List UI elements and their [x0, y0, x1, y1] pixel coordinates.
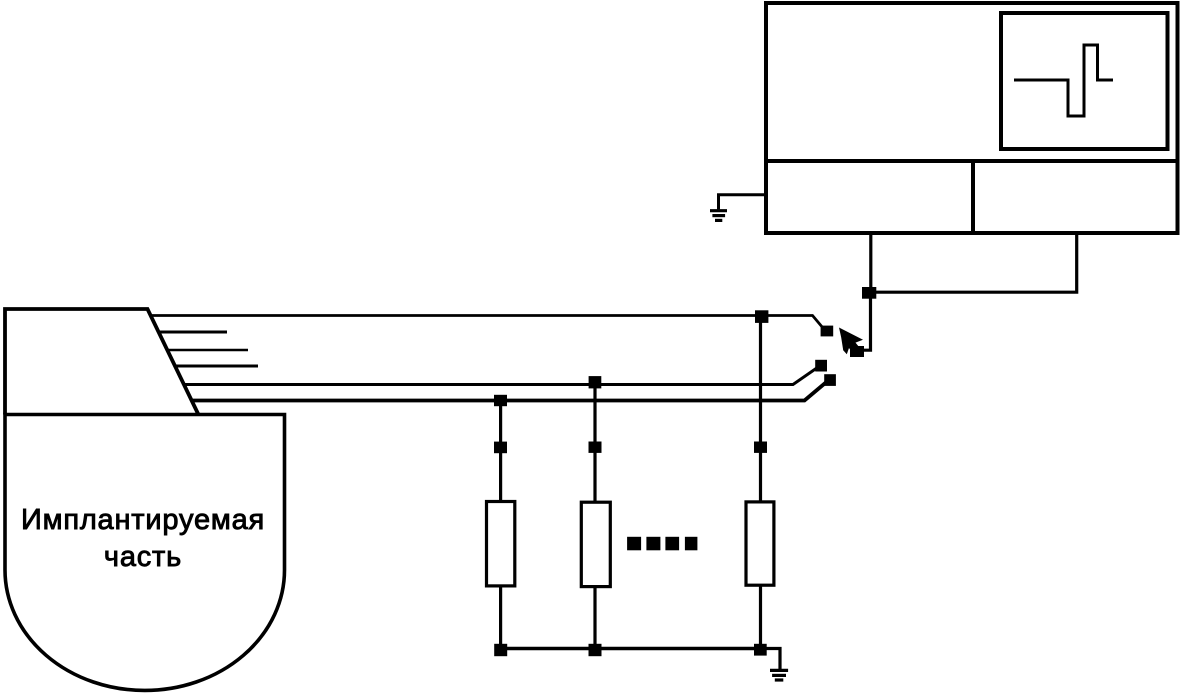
wire from box bottom left output	[869, 235, 872, 293]
wire from box bottom right output	[872, 235, 1077, 292]
cursor arrow (switch selector)	[839, 328, 863, 355]
branch 2 vertical wire	[593, 383, 596, 650]
resistor R3	[746, 502, 774, 585]
electrode stub wire 1	[159, 331, 227, 334]
electrode stub wire 3	[175, 365, 258, 368]
mid-branch contact square 3	[754, 442, 767, 453]
svg-text:Имплантируемая: Имплантируемая	[21, 504, 265, 536]
cable top conductor (to switch throw 1)	[151, 316, 823, 329]
branch 1 vertical wire	[499, 400, 502, 650]
ground symbol (upper left of box)	[710, 211, 727, 221]
ellipsis dots (more branches)	[627, 537, 697, 551]
node on bottom conductor	[494, 395, 507, 406]
mid-branch contact square 2	[589, 442, 602, 453]
bus node square 3	[754, 644, 767, 656]
wire from box to ground	[719, 195, 766, 210]
bus node square 1	[494, 644, 507, 656]
switch throw terminal 1	[821, 326, 834, 337]
resistor R1	[487, 502, 515, 586]
cable bottom conductor (to switch throw 3)	[192, 382, 828, 401]
wire from junction to switch common	[863, 293, 871, 350]
biphasic pulse waveform	[1014, 45, 1113, 116]
node on middle conductor	[589, 376, 602, 388]
node junction of output wires	[862, 287, 876, 299]
svg-text:часть: часть	[104, 541, 182, 573]
bottom bus wire	[501, 647, 761, 650]
switch common terminal	[850, 346, 864, 357]
wire from bus to bottom ground	[761, 649, 781, 670]
ground symbol (bottom right)	[770, 670, 788, 680]
switch throw terminal 2	[815, 360, 827, 372]
branch 3 vertical wire	[759, 316, 762, 650]
node on top conductor	[755, 310, 768, 323]
implant body (dome)	[5, 415, 285, 691]
electrode stub wire 2	[168, 349, 248, 352]
switch throw terminal 3	[824, 374, 836, 386]
device box vertical divider	[971, 161, 975, 233]
bus node square 2	[589, 644, 602, 656]
mid-branch contact square 1	[494, 442, 507, 454]
implant connector (trapezoid head)	[5, 309, 198, 415]
device box horizontal divider	[764, 159, 1180, 163]
device box (pulse generator unit)	[766, 3, 1178, 233]
waveform display box	[1001, 13, 1168, 149]
resistor R2	[581, 502, 610, 586]
cable middle conductor (to switch throw 2)	[184, 368, 818, 385]
